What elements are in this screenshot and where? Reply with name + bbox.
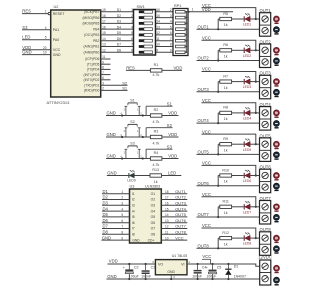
svg-text:12: 12	[165, 225, 169, 229]
svg-text:100uF: 100uF	[129, 275, 139, 279]
node terminal pad positive channel 2	[274, 48, 279, 56]
svg-text:100uF: 100uF	[206, 275, 216, 279]
node terminal pad negative channel 7	[274, 215, 280, 223]
net RES wire	[126, 69, 150, 71]
svg-text:GND: GND	[102, 235, 111, 240]
svg-text:D5: D5	[117, 31, 121, 35]
net VCC wire channel 7	[202, 192, 256, 207]
svg-text:(ICP)PD6: (ICP)PD6	[85, 57, 99, 61]
svg-text:GND: GND	[107, 171, 116, 176]
net VDD stub	[162, 132, 179, 137]
svg-text:1k: 1k	[224, 23, 228, 27]
resistor R6 1k	[220, 43, 232, 58]
LED LED9	[127, 170, 136, 182]
svg-text:8: 8	[121, 231, 123, 235]
net VDD stub after R1	[162, 66, 182, 71]
connector OUT4 screw terminal	[260, 102, 272, 130]
svg-text:VDD: VDD	[168, 111, 177, 116]
node junction LED1 cathode / VCC	[255, 18, 257, 20]
svg-text:R1: R1	[154, 63, 159, 67]
svg-text:14: 14	[165, 213, 169, 217]
svg-text:(RXD)PD0: (RXD)PD0	[84, 89, 100, 93]
node terminal pad positive channel 8	[274, 236, 279, 243]
svg-text:(T1)PD5: (T1)PD5	[87, 62, 100, 66]
svg-text:14: 14	[102, 37, 106, 41]
svg-text:OUT7: OUT7	[175, 224, 186, 229]
LED LED4	[243, 108, 252, 121]
wire OUT4 net to resistor R8	[197, 113, 260, 124]
svg-text:D5: D5	[103, 212, 109, 217]
svg-text:PA1: PA1	[53, 28, 59, 32]
svg-text:S3: S3	[22, 25, 28, 30]
ground symbol / net GND wire at LED9	[107, 171, 129, 176]
wire DIP SW1 pin 9 to RP1 pin 9	[156, 48, 176, 52]
node terminal pad negative channel 5	[274, 152, 280, 160]
node terminal pad negative channel 2	[274, 58, 280, 66]
svg-text:15: 15	[102, 31, 106, 35]
node junction LED8 cathode / VCC	[255, 237, 257, 239]
resistor R9 1k	[220, 137, 232, 152]
wire DIP SW1 pin 13 to RP1 pin 5	[156, 25, 176, 29]
svg-text:I8: I8	[132, 233, 135, 237]
wire DIP SW1 pin 15 to RP1 pin 3	[156, 14, 176, 18]
node terminal pad positive channel 4	[274, 110, 279, 118]
net S3 wire to U2 pin 4 (PA1)	[22, 25, 59, 32]
svg-text:OUT6: OUT6	[175, 218, 186, 223]
svg-text:PB2: PB2	[93, 39, 99, 43]
node terminal pad negative channel 1	[274, 27, 280, 35]
svg-text:R9: R9	[223, 137, 228, 141]
svg-text:13: 13	[102, 43, 106, 47]
svg-text:VDD: VDD	[168, 154, 177, 159]
svg-text:11: 11	[156, 37, 160, 41]
wire LED6 to connector OUT6 pin 1	[250, 175, 259, 177]
pushbutton switch S1	[120, 98, 143, 116]
voltage regulator U1 78L05	[152, 254, 190, 279]
wire R11 to LED7	[232, 206, 244, 208]
svg-text:6: 6	[121, 219, 123, 223]
net D8 wire to U3 pin 8 (I8)	[102, 230, 135, 237]
wire LED2 to connector OUT2 pin 1	[250, 49, 259, 51]
connector OUT8 screw terminal	[260, 227, 272, 255]
svg-text:D7: D7	[103, 224, 109, 229]
svg-text:+: +	[206, 266, 208, 270]
node terminal pad positive channel 1	[274, 17, 279, 25]
svg-text:LED3: LED3	[243, 85, 252, 89]
svg-text:RESET: RESET	[53, 12, 66, 16]
svg-text:O3: O3	[151, 204, 156, 208]
LED LED3	[243, 76, 252, 89]
svg-text:4.7k: 4.7k	[153, 73, 160, 77]
LED LED1	[243, 14, 252, 27]
svg-text:OUT2: OUT2	[198, 56, 210, 61]
net LED wire to U2 pin 5 (PA0)	[22, 35, 59, 42]
svg-text:2: 2	[170, 8, 172, 12]
wire OUT5 net to resistor R9	[197, 144, 260, 155]
svg-text:S1: S1	[122, 86, 128, 91]
svg-text:D2: D2	[103, 195, 109, 200]
svg-text:S3: S3	[167, 144, 173, 149]
svg-text:LED2: LED2	[243, 54, 252, 58]
svg-text:D4: D4	[103, 206, 109, 211]
svg-text:9: 9	[156, 48, 158, 52]
wire LED5 to connector OUT5 pin 1	[250, 143, 259, 145]
svg-text:D3: D3	[103, 201, 109, 206]
wire R8 to LED4	[232, 112, 244, 114]
wire R5 to LED1	[232, 18, 244, 20]
svg-text:GND: GND	[107, 132, 116, 137]
wire OUT2 net to resistor R6	[197, 50, 260, 61]
wire OUT7 net to resistor R11	[197, 207, 260, 218]
svg-text:LED4: LED4	[243, 117, 252, 121]
svg-text:14: 14	[156, 20, 160, 24]
net D7 wire to U3 pin 7 (I7)	[102, 224, 135, 231]
wire net S3 to label	[146, 144, 172, 158]
node terminal pad negative channel 6	[274, 183, 280, 191]
wire LED9 to R13	[134, 175, 150, 177]
net D4 wire to U3 pin 4 (I4)	[102, 206, 135, 213]
svg-text:S1: S1	[130, 98, 134, 102]
resistor R8 1k	[220, 106, 232, 121]
svg-text:5: 5	[170, 25, 172, 29]
svg-text:I5: I5	[132, 215, 135, 219]
svg-text:LED6: LED6	[243, 179, 252, 183]
wire U2 pin 9 (T1)PD5 unconnected stub	[87, 60, 111, 66]
svg-text:(OC1)PB3: (OC1)PB3	[84, 33, 99, 37]
svg-text:OUT8: OUT8	[175, 230, 186, 235]
svg-text:PB4: PB4	[93, 27, 99, 31]
svg-text:8: 8	[170, 43, 172, 47]
wire OUT1 net to resistor R5	[197, 19, 260, 30]
wire net OUT3 from U3 pin 16 (O3)	[151, 201, 188, 208]
resistor R11 1k	[220, 200, 232, 215]
svg-text:D2: D2	[117, 14, 121, 18]
resistor R10 1k	[220, 168, 232, 183]
svg-text:18: 18	[102, 14, 106, 18]
svg-text:11: 11	[102, 55, 106, 59]
svg-text:R8: R8	[223, 106, 228, 110]
svg-text:2: 2	[121, 196, 123, 200]
svg-text:R13: R13	[152, 168, 159, 172]
svg-text:LED1: LED1	[243, 23, 252, 27]
wire net D6: U2 pin 14 PB2 to DIP SW1 pin 6	[93, 37, 133, 43]
svg-text:VDD: VDD	[174, 66, 183, 71]
svg-text:I2: I2	[132, 198, 135, 202]
svg-text:O5: O5	[151, 215, 156, 219]
svg-text:OUT5: OUT5	[175, 212, 186, 217]
net VDD rail wire	[108, 259, 156, 265]
svg-text:1N4007: 1N4007	[234, 275, 246, 279]
svg-text:R4: R4	[154, 151, 159, 155]
pushbutton switch S3	[120, 141, 143, 159]
wire R6 to LED2	[232, 49, 244, 51]
svg-text:O2: O2	[151, 198, 156, 202]
node terminal pad positive channel 3	[274, 79, 279, 87]
wire OUT6 net to resistor R10	[197, 176, 260, 187]
svg-text:U1: U1	[172, 254, 177, 258]
svg-text:(TXD)PD1: (TXD)PD1	[84, 83, 99, 87]
svg-text:4.7k: 4.7k	[153, 141, 160, 145]
svg-text:7: 7	[102, 71, 104, 75]
svg-text:O7: O7	[151, 227, 156, 231]
wire LED8 to connector OUT8 pin 1	[250, 237, 259, 239]
svg-text:(AIN0)PB0: (AIN0)PB0	[84, 50, 100, 54]
wire DIP SW1 pin 14 to RP1 pin 4	[156, 20, 176, 24]
svg-text:I4: I4	[132, 209, 135, 213]
svg-text:S2: S2	[167, 123, 173, 128]
svg-text:16: 16	[156, 8, 160, 12]
capacitor C5 100uF	[206, 263, 221, 280]
svg-text:78L05: 78L05	[177, 254, 187, 258]
svg-text:LED8: LED8	[243, 242, 252, 246]
svg-text:D6: D6	[103, 218, 109, 223]
wire U2 pin 11 (ICP)PD6 unconnected stub	[85, 55, 110, 61]
wire U2 pin 3 (TXD)PD1 net S2 stub	[84, 80, 128, 87]
net VCC wire channel 1	[202, 3, 256, 19]
wire net D7: U2 pin 13 (AIN1)PB1 to DIP SW1 pin 7	[84, 43, 134, 49]
svg-text:O1: O1	[151, 192, 156, 196]
wire OUT8 net to resistor R12	[197, 238, 260, 249]
svg-text:16: 16	[165, 202, 169, 206]
svg-text:ATTINY2313: ATTINY2313	[47, 100, 71, 105]
LED LED8	[243, 233, 252, 246]
wire LED7 to connector OUT7 pin 1	[250, 206, 259, 208]
wire net D3: U2 pin 17 (MOSI)PB5 to DIP SW1 pin 3	[82, 20, 133, 26]
connector OUT6 screw terminal	[260, 165, 272, 193]
svg-text:R12: R12	[222, 231, 229, 235]
net VCC wire channel 5	[202, 129, 256, 144]
svg-text:R3: R3	[154, 130, 159, 134]
svg-text:R5: R5	[223, 12, 228, 16]
wire LED1 to connector OUT1 pin 1	[250, 18, 259, 20]
svg-text:VCC: VCC	[202, 129, 211, 134]
svg-text:2: 2	[102, 87, 104, 91]
svg-text:D6: D6	[117, 37, 121, 41]
wire LED4 to connector OUT4 pin 1	[250, 112, 259, 114]
svg-text:R2: R2	[154, 108, 159, 112]
svg-text:D8: D8	[103, 230, 109, 235]
node terminal pad negative channel 8	[274, 246, 280, 254]
net VCC wire channel 8	[202, 223, 256, 238]
wire net D1: U2 pin 19 (SCK)PB7 to DIP SW1 pin 1	[84, 8, 133, 14]
svg-text:4: 4	[121, 207, 123, 211]
wire OUT3 net to resistor R7	[197, 82, 260, 93]
node junction LED7 cathode / VCC	[255, 206, 257, 208]
svg-text:OUT3: OUT3	[175, 201, 186, 206]
wire U2 pin 7 (INT1)PD3 unconnected stub	[84, 71, 111, 77]
pushbutton switch S2	[120, 120, 143, 138]
svg-text:4.7k: 4.7k	[153, 163, 160, 167]
svg-text:LED: LED	[168, 171, 176, 176]
svg-text:VCC: VCC	[202, 161, 211, 166]
wire net D8: U2 pin 12 (AIN0)PB0 to DIP SW1 pin 8	[84, 48, 134, 54]
resistor R2 4.7k pullup	[146, 108, 162, 124]
svg-text:O4: O4	[151, 209, 156, 213]
node junction LED5 cathode / VCC	[255, 143, 257, 145]
svg-text:C5: C5	[217, 266, 222, 270]
svg-text:I6: I6	[132, 221, 135, 225]
svg-text:8: 8	[102, 66, 104, 70]
diode D1 1N4007	[225, 263, 246, 280]
svg-text:7: 7	[121, 225, 123, 229]
net LED stub	[162, 171, 182, 176]
wire net D2: U2 pin 18 (MISO)PB6 to DIP SW1 pin 2	[82, 14, 133, 20]
svg-text:3: 3	[170, 14, 172, 18]
wire net OUT4 from U3 pin 15 (O4)	[151, 206, 188, 213]
capacitor C3 100nF	[141, 263, 155, 280]
svg-text:O8: O8	[151, 233, 156, 237]
wire DIP SW1 pin 16 to RP1 pin 2	[156, 8, 176, 12]
resistor R4 4.7k pullup	[146, 151, 162, 167]
svg-text:17: 17	[102, 20, 106, 24]
svg-text:100nF: 100nF	[192, 275, 202, 279]
svg-text:VO: VO	[158, 262, 163, 266]
svg-text:VCC: VCC	[53, 48, 61, 52]
IC U3 ULN2803 body	[130, 185, 162, 243]
node terminal pad negative 12VDC	[274, 277, 280, 285]
svg-text:VCC: VCC	[202, 254, 211, 259]
svg-text:10: 10	[43, 51, 47, 55]
svg-text:5: 5	[121, 213, 123, 217]
wire U1 GND pin to GND rail	[170, 275, 172, 280]
svg-text:VCC: VCC	[202, 223, 211, 228]
svg-text:C2: C2	[134, 266, 139, 270]
svg-text:GND: GND	[132, 238, 140, 242]
svg-text:R6: R6	[223, 43, 228, 47]
svg-text:VCC: VCC	[202, 35, 211, 40]
svg-text:VDD: VDD	[168, 132, 177, 137]
resistor R1 4.7k	[126, 63, 162, 77]
ground symbol / net GND wire at switch S2	[106, 132, 146, 137]
svg-text:OUT3: OUT3	[198, 87, 210, 92]
svg-text:1: 1	[192, 8, 194, 12]
svg-text:VCC: VCC	[202, 98, 211, 103]
svg-text:17: 17	[165, 196, 169, 200]
wire R7 to LED3	[232, 81, 244, 83]
svg-text:OUT1: OUT1	[198, 24, 210, 29]
svg-text:GND: GND	[107, 154, 116, 159]
svg-text:9: 9	[121, 236, 123, 240]
node terminal pad positive 12VDC	[274, 266, 279, 273]
svg-text:1k: 1k	[224, 148, 228, 152]
svg-text:1k: 1k	[224, 211, 228, 215]
node terminal pad negative channel 3	[274, 89, 280, 97]
svg-text:D1: D1	[234, 264, 239, 268]
svg-text:OUT5: OUT5	[198, 150, 210, 155]
connector OUT7 screw terminal	[260, 196, 272, 224]
resistor network RP1	[173, 4, 188, 55]
svg-text:SW1: SW1	[137, 5, 145, 9]
wire net VDD from RP1 pin 1	[186, 7, 233, 13]
capacitor C2 100uF	[123, 263, 139, 280]
node junction LED6 cathode / VCC	[255, 174, 257, 176]
node junction LED2 cathode / VCC	[255, 49, 257, 51]
svg-text:(MISO)PB6: (MISO)PB6	[82, 16, 99, 20]
svg-text:100nF: 100nF	[141, 275, 151, 279]
IC U2 ATTINY2313 microcontroller body	[47, 5, 101, 105]
switch SW1 DIP-8	[134, 5, 156, 55]
svg-text:VCC: VCC	[175, 235, 184, 240]
node terminal pad positive channel 7	[274, 204, 279, 211]
wire net OUT7 from U3 pin 12 (O7)	[151, 224, 188, 231]
svg-text:(AIN1)PB1: (AIN1)PB1	[84, 45, 100, 49]
svg-text:7: 7	[170, 37, 172, 41]
svg-text:3: 3	[102, 81, 104, 85]
wire DIP SW1 pin 12 to RP1 pin 6	[156, 31, 176, 35]
net VCC wire channel 3	[202, 67, 256, 82]
svg-text:1k: 1k	[224, 86, 228, 90]
svg-text:9: 9	[170, 48, 172, 52]
connector OUT1 screw terminal	[260, 8, 272, 36]
svg-text:VCC: VCC	[202, 192, 211, 197]
svg-text:VCC: VCC	[202, 67, 211, 72]
wire R9 to LED5	[232, 143, 244, 145]
wire U2 pin 2 (RXD)PD0 net S1 stub	[84, 86, 128, 93]
svg-text:D7: D7	[117, 43, 121, 47]
net D6 wire to U3 pin 6 (I6)	[102, 218, 135, 225]
wire LED3 to connector OUT3 pin 1	[250, 81, 259, 83]
svg-text:(INT0)PD2: (INT0)PD2	[84, 78, 100, 82]
wire R10 to LED6	[232, 175, 244, 177]
svg-text:10: 10	[165, 236, 169, 240]
svg-text:D1: D1	[103, 189, 109, 194]
svg-text:S1: S1	[167, 101, 173, 106]
node terminal pad positive channel 6	[274, 173, 279, 181]
wire net D4: U2 pin 16 PB4 to DIP SW1 pin 4	[93, 25, 133, 31]
svg-text:GND: GND	[53, 53, 61, 57]
net D2 wire to U3 pin 2 (I2)	[102, 195, 135, 202]
svg-text:S2: S2	[130, 120, 134, 124]
svg-text:LED7: LED7	[243, 210, 252, 214]
capacitor C4 100nF	[192, 263, 206, 280]
net D5 wire to U3 pin 5 (I5)	[102, 212, 135, 219]
net VCC wire channel 6	[202, 161, 256, 176]
node terminal pad positive channel 5	[274, 142, 279, 150]
svg-text:R11: R11	[223, 200, 229, 204]
svg-text:4: 4	[170, 20, 172, 24]
svg-text:15: 15	[165, 207, 169, 211]
ground symbol / net GND wire at switch S1	[106, 111, 146, 116]
resistor R3 4.7k pullup	[146, 130, 162, 146]
svg-text:9: 9	[102, 60, 104, 64]
svg-text:GND: GND	[107, 274, 116, 279]
LED LED2	[243, 45, 252, 58]
wire net OUT5 from U3 pin 14 (O5)	[151, 212, 188, 219]
resistor R13 1k	[150, 168, 162, 184]
wire U2 pin 6 (INT0)PD2 unconnected stub	[84, 76, 111, 82]
connector OUT2 screw terminal	[260, 39, 272, 67]
svg-text:U2: U2	[54, 5, 59, 9]
net VDD stub	[162, 111, 179, 116]
svg-text:C3: C3	[151, 266, 156, 270]
net VDD stub	[162, 154, 179, 159]
svg-text:VDD: VDD	[109, 259, 118, 264]
svg-text:OUT6: OUT6	[198, 181, 210, 186]
svg-text:U3: U3	[130, 185, 135, 189]
svg-text:(MOSI)PB5: (MOSI)PB5	[82, 22, 99, 26]
resistor R12 1k	[220, 231, 232, 246]
svg-text:GND: GND	[167, 270, 175, 274]
svg-text:I1: I1	[132, 192, 135, 196]
svg-text:RES: RES	[22, 9, 31, 14]
svg-text:11: 11	[165, 231, 169, 235]
svg-text:1k: 1k	[224, 55, 228, 59]
svg-text:1k: 1k	[224, 180, 228, 184]
svg-text:OUT7: OUT7	[198, 212, 210, 217]
connector OUT5 screw terminal	[260, 133, 272, 161]
svg-text:1: 1	[121, 190, 123, 194]
LED LED6	[243, 170, 252, 183]
